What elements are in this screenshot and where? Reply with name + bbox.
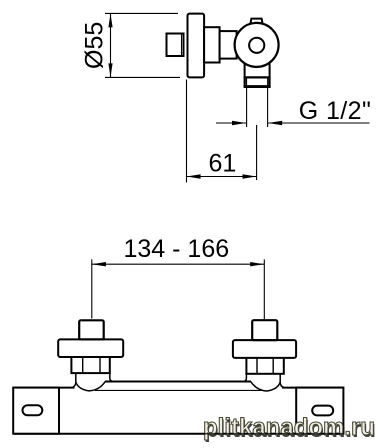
dimension line 134-166: [92, 263, 264, 265]
arrow down Ø55: [108, 63, 112, 77]
valve inner circle: [249, 38, 264, 53]
left valve hex nut: [71, 357, 109, 373]
pipe centerline: [256, 125, 258, 180]
right valve skirt bell: [251, 374, 281, 391]
bar central body top edge: [105, 381, 251, 383]
arrow up Ø55: [108, 13, 112, 27]
outlet nut top band: [244, 76, 271, 78]
left wall bracket ear: [13, 388, 59, 434]
right valve nut-edge stub and fillet: [243, 374, 247, 382]
outlet pipe G1/2 right line: [267, 87, 269, 127]
right wall bracket ear: [296, 388, 343, 434]
svg-text:61: 61: [209, 150, 237, 178]
G1/2 arrow right-pointing: [232, 121, 246, 125]
left ear slot: [23, 405, 43, 415]
right ear slot: [312, 406, 333, 416]
right nut facet lines: [256, 358, 258, 374]
outlet block under circle: [245, 58, 270, 87]
svg-text:Ø55: Ø55: [81, 22, 109, 69]
front view: bar bottom edge: [13, 433, 344, 435]
top tab on valve circle: [250, 19, 262, 24]
side view: extension line bottom (Ø55): [105, 76, 180, 78]
svg-text:134 - 166: 134 - 166: [124, 235, 230, 263]
spigot inner joint line: [181, 34, 183, 57]
outlet nut inset verticals: [245, 77, 247, 86]
left nut facet lines: [82, 357, 84, 373]
61 arrow right: [243, 174, 257, 178]
bar top edge left section: [13, 387, 75, 389]
134-166 extension line left / knob centerline: [91, 259, 93, 318]
left valve skirt left fillet: [72, 382, 76, 388]
dimension line 61: [187, 176, 257, 178]
G1/2 leader right segment: [268, 122, 369, 124]
left valve flange: [58, 339, 123, 357]
dimension line Ø55: [110, 13, 112, 77]
G1/2 arrow left-pointing: [268, 121, 282, 125]
outlet pipe G1/2 left line: [246, 87, 248, 127]
right valve skirt right fillet: [280, 382, 284, 387]
134-166 extension line right / knob centerline: [263, 259, 265, 319]
134-166 arrow right: [250, 262, 264, 266]
left valve knob: [79, 320, 104, 339]
escutcheon Ø55 (side view): [188, 14, 205, 78]
G1/2 leader left segment: [216, 122, 246, 124]
bar thin top line between valves: [95, 389, 262, 391]
neck flange 2: [220, 31, 237, 58]
neck flange 1: [204, 27, 220, 62]
right valve knob: [252, 320, 277, 340]
bar top edge right section: [282, 387, 344, 389]
left valve skirt bell: [76, 373, 106, 391]
watermark plitkanadom.ru: [203, 417, 375, 439]
134-166 arrow left: [92, 262, 106, 266]
outlet nut bottom band: [244, 85, 271, 87]
right valve hex nut: [246, 358, 283, 374]
wall spigot square nut (side view): [167, 34, 184, 57]
valve body circle (side view): [235, 23, 279, 67]
61 arrow left: [187, 174, 201, 178]
61 extension line left: [186, 80, 188, 183]
right valve flange: [233, 340, 296, 358]
side view: extension line top (Ø55): [105, 12, 178, 14]
left valve nut-edge stub and fillet: [110, 373, 114, 381]
svg-text:G 1/2": G 1/2": [299, 97, 371, 125]
